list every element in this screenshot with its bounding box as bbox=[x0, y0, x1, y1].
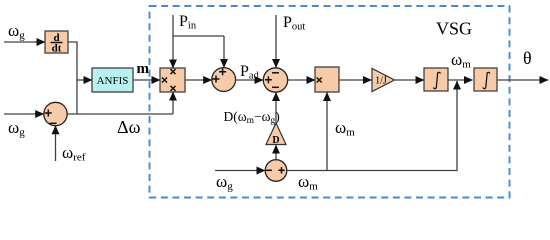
svg-text:m: m bbox=[137, 61, 150, 77]
summing junction S4 (omega_m - omega_g) bbox=[265, 160, 287, 182]
wire S3 output into M2 bbox=[288, 79, 315, 81]
wire D triangle up into S3 bottom bbox=[275, 92, 277, 123]
svg-text:θ: θ bbox=[523, 48, 532, 68]
wire omega_g (lower) into S1 bbox=[4, 113, 44, 115]
multiplier block M2 bbox=[315, 67, 339, 92]
VSG dashed boundary box bbox=[150, 6, 510, 198]
wire omega_g into d/dt bbox=[4, 41, 45, 43]
summing junction S2 bbox=[212, 68, 236, 92]
integrator block I2 bbox=[474, 68, 497, 91]
integrator block I1 bbox=[424, 68, 448, 91]
block d/dt derivative bbox=[45, 31, 68, 55]
wire omega_ref up into S1 bbox=[55, 126, 57, 161]
multiplier block M1 bbox=[160, 68, 185, 92]
svg-text:ANFIS: ANFIS bbox=[97, 75, 129, 87]
wire S4 up into damping D bbox=[275, 145, 277, 160]
wire M1 output into S2 bbox=[185, 79, 212, 81]
wire M2 output into gain 1/J bbox=[339, 79, 372, 81]
svg-text:dt: dt bbox=[52, 43, 62, 55]
wire I2 output theta bbox=[497, 79, 548, 81]
svg-text:VSG: VSG bbox=[436, 19, 472, 39]
wire d/dt output right and down to delta-omega line bbox=[68, 42, 77, 114]
summing junction S3 bbox=[263, 68, 287, 92]
wire gain output into integrator I1 bbox=[395, 79, 425, 81]
summing junction S1 (omega_g - omega_ref) bbox=[44, 102, 67, 125]
wire ANFIS output into multiplier M1 bbox=[133, 79, 160, 81]
wire branch into ANFIS bbox=[77, 79, 92, 81]
gain block 1/J bbox=[372, 69, 395, 92]
wire omega_m feedback from integrator junction down and left into S4 bbox=[287, 81, 457, 171]
wire P_in branch over to S2 bbox=[173, 35, 224, 37]
damping gain block D (triangle) bbox=[266, 123, 286, 146]
wire P_in down into M1 top bbox=[172, 15, 174, 68]
svg-text:D: D bbox=[272, 135, 279, 146]
wire omega_g into S4 bbox=[215, 170, 265, 172]
svg-text:Δω: Δω bbox=[117, 117, 141, 137]
block ANFIS bbox=[92, 68, 133, 92]
wire P_out down into S3 top bbox=[275, 15, 277, 68]
wire S1 output delta-omega to M1 bottom bbox=[67, 113, 173, 115]
wire omega_m up into M2 bottom bbox=[326, 92, 328, 170]
svg-text:1/J: 1/J bbox=[375, 76, 387, 87]
wire I1 output into I2 bbox=[448, 79, 473, 81]
wire S2 output into S3 bbox=[236, 79, 263, 81]
